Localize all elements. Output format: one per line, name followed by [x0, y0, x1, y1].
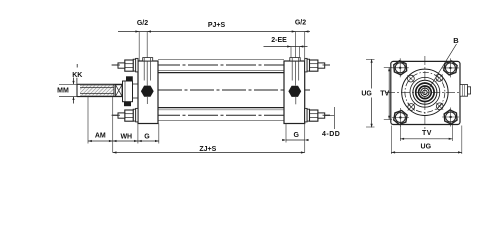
- svg-text:ZJ+S: ZJ+S: [199, 146, 216, 153]
- svg-text:G/2: G/2: [137, 20, 148, 27]
- svg-text:4-DD: 4-DD: [322, 131, 340, 138]
- svg-text:2-EE: 2-EE: [271, 37, 287, 44]
- svg-text:MM: MM: [57, 88, 69, 95]
- svg-text:TV: TV: [380, 91, 389, 98]
- svg-text:G: G: [293, 132, 299, 139]
- svg-text:B: B: [453, 36, 459, 45]
- svg-text:AM: AM: [95, 133, 106, 140]
- svg-text:G/2: G/2: [295, 20, 306, 27]
- svg-text:UG: UG: [361, 91, 372, 98]
- svg-text:PJ+S: PJ+S: [208, 22, 226, 29]
- svg-text:UG: UG: [421, 144, 432, 151]
- svg-text:G: G: [144, 134, 150, 141]
- svg-text:TV: TV: [422, 130, 432, 137]
- svg-text:WH: WH: [120, 134, 132, 141]
